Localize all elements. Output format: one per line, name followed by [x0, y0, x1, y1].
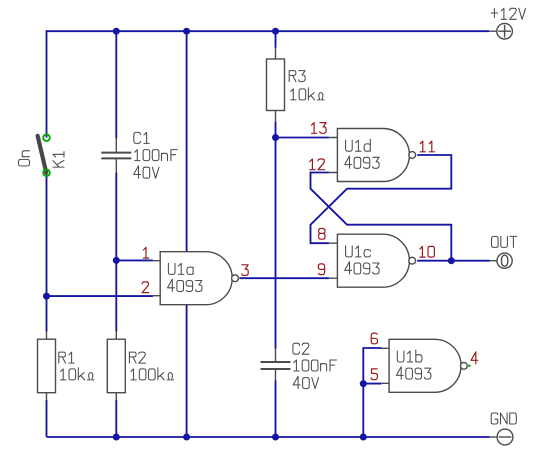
- junction top rail x275: [272, 28, 279, 35]
- wire net B out11 to pin8: [311, 155, 452, 243]
- label C1: [134, 132, 149, 143]
- capacitor C1: [101, 138, 131, 173]
- unconnected pin marker U1b output: [468, 365, 470, 367]
- junction bottom rail x116: [113, 434, 120, 441]
- pin number 5: [371, 369, 377, 380]
- label U1a: [168, 263, 193, 274]
- junction top rail x186: [183, 28, 190, 35]
- resistor R3: [267, 47, 285, 123]
- junction R3 pin13 node: [272, 134, 279, 141]
- junction bottom rail x186: [183, 434, 190, 441]
- wire C1 net upper: [115, 30, 117, 138]
- wire pin13 branch: [276, 137, 329, 139]
- pin number 10: [420, 246, 435, 257]
- wire C1 net lower through pin1 junction to R2: [115, 173, 117, 438]
- value C2 40V: [293, 376, 318, 388]
- value U1d 4093: [345, 156, 380, 168]
- wire top rail: [47, 30, 490, 32]
- pin number 4: [471, 352, 478, 364]
- pin number 13: [312, 123, 327, 134]
- value R3 10k: [291, 88, 324, 100]
- label U1b: [397, 350, 422, 362]
- junction pin5 node: [360, 380, 367, 387]
- label On rotated: [19, 151, 30, 166]
- pin number 11: [420, 141, 434, 152]
- switch K1 terminal top: [43, 134, 50, 141]
- resistor R2: [107, 331, 125, 401]
- label GND: [491, 413, 516, 424]
- wire U1a out3 to U1c pin9: [239, 277, 329, 279]
- switch K1 terminal bottom: [43, 169, 50, 176]
- wire mid vertical net: [186, 30, 188, 437]
- wire U1b input net to ground rail: [363, 348, 381, 437]
- NAND gate U1d: [329, 129, 416, 182]
- value U1a 4093: [168, 279, 203, 291]
- label C2: [293, 343, 309, 354]
- label R3: [289, 71, 305, 82]
- label OUT: [492, 236, 517, 247]
- switch K1 wire stub into top terminal: [46, 134, 48, 138]
- pin number 12: [310, 159, 325, 170]
- pin number 6: [371, 333, 377, 344]
- value C1 40V: [134, 166, 159, 178]
- wire net A out10 to pin12: [311, 173, 452, 261]
- wire OUT from pin10: [417, 260, 490, 262]
- resistor R1: [38, 331, 56, 401]
- switch K1 lever: [38, 136, 47, 173]
- pin number 8: [319, 229, 325, 240]
- wire bottom rail: [47, 436, 490, 438]
- wire left rail upper to K1: [46, 30, 48, 134]
- label R1: [59, 352, 74, 363]
- label U1c: [346, 246, 371, 257]
- label R2: [129, 352, 145, 363]
- value U1c 4093: [345, 262, 380, 274]
- junction out10 node: [448, 257, 455, 264]
- wire pin1 branch: [116, 259, 153, 261]
- label +12V: [491, 8, 525, 19]
- capacitor C2: [261, 348, 291, 380]
- junction bottom rail x275: [272, 434, 279, 441]
- wire left rail K1 to R1 to bottom: [46, 173, 48, 437]
- terminal OUT: [490, 253, 513, 268]
- value R1 10k: [61, 368, 94, 380]
- terminal +12V: [489, 23, 512, 39]
- junction pin2 node: [43, 293, 50, 300]
- label K1 rotated: [53, 152, 64, 167]
- junction top rail x116: [113, 28, 120, 35]
- value C2 100nF: [294, 360, 337, 371]
- value R2 100k: [131, 368, 174, 380]
- pin number 2: [142, 282, 149, 293]
- terminal GND: [490, 429, 513, 445]
- NAND gate U1c: [329, 234, 416, 287]
- wire pin2 branch: [47, 295, 153, 297]
- label U1d: [346, 139, 371, 151]
- junction bottom rail x363: [360, 434, 367, 441]
- pin number 9: [318, 264, 324, 275]
- junction pin1 node: [113, 257, 120, 264]
- value U1b 4093: [396, 367, 431, 379]
- NAND gate U1a: [153, 252, 239, 305]
- NAND gate U1b: [382, 339, 468, 392]
- value C1 100nF: [135, 150, 178, 161]
- wire R3 C2 net segments: [275, 30, 277, 437]
- pin number 3: [242, 265, 248, 276]
- pin number 1: [143, 247, 148, 258]
